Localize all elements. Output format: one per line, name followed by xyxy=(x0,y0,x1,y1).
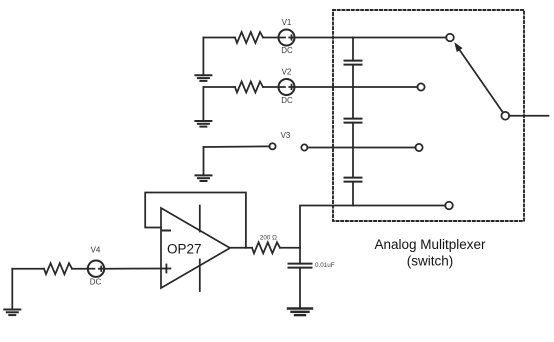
svg-text:V4: V4 xyxy=(91,246,101,255)
capacitor C4 0.01uF xyxy=(289,248,312,309)
resistor R4 (V4 branch) xyxy=(44,263,72,274)
wire GND1 to R1 xyxy=(203,37,235,39)
wire V4 to U1 non-inverting input xyxy=(104,268,161,270)
source V4 xyxy=(88,261,104,277)
svg-text:DC: DC xyxy=(90,277,102,286)
wire GND4 to R4 xyxy=(12,268,44,270)
source V1 xyxy=(279,30,295,46)
wire GND2 to R2 xyxy=(203,86,235,88)
node switch contact 4 xyxy=(445,202,453,210)
wire node A riser to switch contact 4 xyxy=(300,206,445,248)
capacitor C2 xyxy=(345,119,362,123)
node V3 right terminal xyxy=(301,144,307,150)
svg-text:DC: DC xyxy=(281,46,293,55)
switch arm with arrow xyxy=(454,42,502,112)
svg-text:DC: DC xyxy=(281,96,293,105)
svg-text:OP27: OP27 xyxy=(167,242,202,257)
node switch contact 3 xyxy=(415,144,422,151)
svg-text:0.01uF: 0.01uF xyxy=(315,262,335,269)
resistor R2 (V2 branch) xyxy=(235,82,263,93)
svg-text:Analog Mulitplexer: Analog Mulitplexer xyxy=(374,237,486,252)
capacitor C1 xyxy=(345,61,362,65)
wire feedback loop (output to inverting input) xyxy=(145,193,246,248)
svg-text:V3: V3 xyxy=(281,131,291,140)
wire R4 to V4 xyxy=(72,268,88,270)
wire R1 to V1 xyxy=(263,37,279,39)
ground GND5 (C4) xyxy=(288,309,312,316)
svg-text:V2: V2 xyxy=(282,68,292,77)
wire R5 to node A xyxy=(280,247,300,249)
svg-text:V1: V1 xyxy=(282,18,292,27)
wire V1 to switch contact 1 xyxy=(295,37,447,39)
pin V- power stub (U1) xyxy=(199,260,201,292)
node switch contact 2 xyxy=(417,83,424,90)
node switch contact 1 xyxy=(446,34,454,42)
wire U1 output to R5 xyxy=(230,247,252,249)
node V3 left terminal xyxy=(269,143,275,149)
wire GND3 to V3 left terminal xyxy=(204,145,270,148)
svg-text:200 Ω: 200 Ω xyxy=(260,234,277,241)
wire multiplexer output xyxy=(509,115,549,117)
ground GND4 (V4 branch) xyxy=(4,269,20,315)
analog multiplexer dashed box xyxy=(333,10,524,221)
wire V2 to switch contact 2 xyxy=(295,86,418,88)
ground GND1 (V1 branch) xyxy=(195,38,211,81)
svg-text:(switch): (switch) xyxy=(407,254,454,269)
node switch common xyxy=(501,112,509,120)
pin V+ power stub (U1) xyxy=(199,206,201,232)
wire R2 to V2 xyxy=(263,86,279,88)
resistor R1 (V1 branch) xyxy=(235,32,263,43)
ground GND3 (V3 branch) xyxy=(196,147,212,181)
op-amp U1 OP27 xyxy=(161,208,230,288)
capacitor C3 xyxy=(345,178,362,182)
resistor R5 200 ohm xyxy=(252,242,280,253)
source V2 xyxy=(279,79,295,95)
wire capacitor chain vertical bus xyxy=(352,38,354,206)
ground GND2 (V2 branch) xyxy=(195,87,211,127)
wire V3 terminal to switch contact 3 xyxy=(307,147,415,149)
